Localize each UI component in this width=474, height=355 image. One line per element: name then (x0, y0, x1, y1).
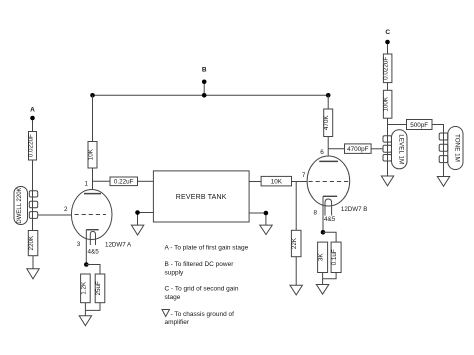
wire 10K to tube A plate pin 1 (92, 168, 94, 194)
node junction rail B (202, 93, 207, 98)
svg-text:4&5: 4&5 (324, 216, 336, 223)
wire junction down to 22K (295, 182, 297, 231)
svg-text:A: A (30, 107, 35, 114)
svg-text:stage: stage (165, 294, 181, 301)
node junction rail right (326, 93, 331, 98)
svg-text:1.2K: 1.2K (80, 281, 87, 295)
ground (cathode B) (316, 285, 328, 295)
svg-text:3K: 3K (318, 253, 325, 262)
wire reverb tank output to 10K (249, 181, 261, 183)
tube V1 12DW7 A (64, 190, 132, 256)
capacitor 25uF (95, 274, 105, 303)
node junction rail left (90, 93, 95, 98)
wire cathode B junction to 0.1uF branch (323, 232, 336, 242)
svg-text:12DW7 A: 12DW7 A (105, 242, 132, 249)
svg-text:C - To grid of second gain: C - To grid of second gain (165, 285, 239, 292)
ground (below 220K) (27, 269, 39, 279)
potentiometer TONE 1M (439, 127, 463, 170)
svg-text:0.22uF: 0.22uF (114, 179, 134, 186)
node A terminal (30, 107, 35, 121)
svg-text:220K: 220K (28, 235, 35, 251)
wire node B stub (203, 84, 205, 96)
node junction tank left ground (135, 210, 140, 215)
svg-text:10K: 10K (271, 179, 283, 186)
wire TONE pot to ground (443, 163, 445, 176)
svg-text:amplifier: amplifier (165, 319, 190, 326)
legend note B (165, 261, 235, 276)
svg-text:TONE 1M: TONE 1M (453, 134, 460, 162)
resistor 10K (plate tube A) (88, 142, 98, 169)
wire node A to capacitor 0.022uF (32, 120, 34, 132)
wire 220K to ground (32, 256, 34, 269)
resistor 22K (291, 230, 301, 256)
wire 10K to tube B grid pin 7 (292, 181, 308, 183)
svg-text:12DW7 B: 12DW7 B (341, 206, 367, 213)
wire reverb tank right ground (249, 213, 266, 225)
svg-text:DWELL 220K: DWELL 220K (17, 187, 23, 223)
node junction tank right ground (264, 211, 269, 216)
svg-text:0.022uF: 0.022uF (383, 57, 390, 80)
svg-text:4&5: 4&5 (88, 248, 100, 255)
ground (TONE pot) (437, 177, 449, 187)
svg-text:supply: supply (165, 269, 185, 276)
node junction cathode A (84, 262, 89, 267)
wire 0.22uF to reverb tank input (138, 180, 154, 182)
svg-text:B: B (202, 67, 207, 74)
svg-text:25uF: 25uF (95, 281, 102, 296)
wire tube B cathode pin 8 down (322, 196, 324, 232)
wire 4700pF to LEVEL pot wiper (371, 148, 383, 150)
svg-text:B - To filtered DC power: B - To filtered DC power (165, 261, 235, 268)
svg-text:4700pF: 4700pF (347, 146, 369, 153)
wire rail to resistor 470K (327, 95, 329, 109)
wire node C to capacitor 0.022uF (387, 44, 389, 54)
capacitor 4700pF (345, 144, 372, 154)
svg-text:C: C (385, 29, 390, 36)
wire plate junction to capacitor 4700pF (328, 148, 344, 150)
wire B supply rail (93, 94, 329, 96)
ground (tank left) (131, 225, 143, 235)
resistor 3K (318, 242, 328, 272)
svg-text:10K: 10K (88, 148, 95, 160)
wire tube A cathode pin 3 down (85, 230, 87, 265)
svg-text:100K: 100K (383, 96, 390, 112)
svg-text:3: 3 (77, 241, 81, 248)
node B terminal (202, 67, 207, 85)
potentiometer DWELL 220K (14, 187, 38, 225)
resistor 220K (28, 231, 38, 256)
wire LEVEL pot to ground (387, 163, 389, 177)
wire rail to resistor 10K plate (92, 95, 94, 141)
wire 1.2K and 25uF to ground (85, 303, 100, 316)
pin 6 label (320, 149, 324, 156)
resistor 100K (383, 90, 392, 118)
svg-text:- To chassis ground of: - To chassis ground of (171, 311, 235, 318)
pin 1 label (84, 181, 88, 188)
svg-text:470K: 470K (323, 115, 330, 131)
svg-text:6: 6 (320, 149, 324, 156)
tube V2 12DW7 B (302, 156, 368, 223)
svg-text:LEVEL 1M: LEVEL 1M (397, 134, 404, 164)
wire 0.022uF to 100K (387, 83, 389, 91)
svg-text:REVERB TANK: REVERB TANK (176, 194, 227, 201)
svg-text:0.022uF: 0.022uF (28, 134, 35, 157)
wire 3K and 0.1uF to ground (323, 273, 337, 285)
legend note A (165, 245, 249, 252)
resistor 10K (grid tube B) (261, 176, 291, 186)
svg-text:1: 1 (84, 181, 88, 188)
svg-text:A - To plate of first gain sta: A - To plate of first gain stage (165, 245, 249, 252)
legend note ground (162, 310, 234, 327)
capacitor 0.1uF (331, 242, 341, 272)
ground (tank right) (260, 225, 272, 234)
capacitor 0.22uF (110, 177, 138, 186)
wire cathode A junction to 25uF branch (86, 265, 100, 275)
capacitor 500pF (407, 120, 433, 130)
wire capacitor to DWELL pot and down to 220K (32, 160, 34, 231)
svg-text:500pF: 500pF (410, 122, 428, 129)
wire plate junction to capacitor 0.22uF (93, 180, 111, 182)
svg-text:7: 7 (302, 172, 306, 179)
ground (LEVEL pot) (381, 176, 393, 186)
capacitor 0.022uF (input A) (28, 132, 37, 161)
resistor 1.2K (80, 274, 90, 303)
potentiometer LEVEL 1M (383, 130, 407, 169)
node C terminal (385, 29, 390, 44)
wire 470K to tube B plate pin 6 (327, 137, 329, 162)
svg-text:2: 2 (64, 206, 68, 213)
legend note C (165, 285, 239, 301)
resistor 470K (323, 109, 333, 137)
wire 500pF to TONE pot (432, 125, 444, 164)
ground (cathode A) (79, 316, 91, 326)
node junction cathode B (321, 230, 326, 235)
wire reverb tank left ground (138, 213, 154, 226)
svg-text:8: 8 (314, 209, 318, 216)
reverb tank (153, 171, 249, 222)
wire branch to capacitor 500pF (388, 124, 407, 126)
wire 100K to LEVEL pot and ground (387, 118, 389, 162)
wire 22K to ground (295, 257, 297, 286)
ground (22K) (290, 285, 302, 295)
capacitor 0.022uF (output C) (383, 54, 392, 83)
svg-text:0.1uF: 0.1uF (331, 249, 338, 265)
svg-text:22K: 22K (291, 237, 298, 249)
wire DWELL wiper to tube A grid pin 2 (38, 214, 72, 216)
